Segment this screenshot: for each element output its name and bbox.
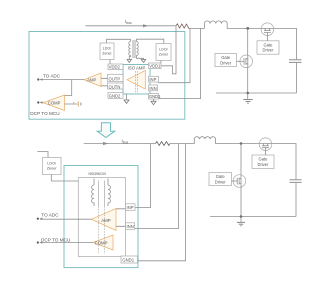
svg-text:GND2: GND2 [109,93,121,98]
svg-text:GND1: GND1 [122,258,134,263]
svg-text:AMP: AMP [87,77,96,82]
svg-text:Ibus: Ibus [122,139,129,145]
svg-text:+: + [73,101,75,105]
svg-text:Driver: Driver [220,60,232,65]
svg-text:Zener: Zener [47,167,58,171]
svg-text:COMP: COMP [95,240,108,245]
svg-text:Gate: Gate [216,174,226,179]
svg-text:TO ADC: TO ADC [41,213,59,218]
svg-text:LDO/: LDO/ [159,47,167,51]
svg-text:Driver: Driver [258,162,270,167]
svg-text:Gate: Gate [221,55,231,60]
svg-text:LDO/: LDO/ [103,47,111,51]
svg-text:Gate: Gate [264,42,274,47]
svg-text:TO ADC: TO ADC [43,73,61,78]
svg-text:Driver: Driver [263,48,275,53]
svg-text:Zener: Zener [102,52,112,56]
svg-text:VDD2: VDD2 [109,65,121,70]
svg-text:Driver: Driver [215,179,227,184]
svg-text:GND1: GND1 [149,94,161,99]
svg-text:INP: INP [149,77,156,82]
svg-text:OUTN: OUTN [109,84,121,89]
svg-text:OCP TO MCU: OCP TO MCU [41,238,71,243]
svg-text:Zener: Zener [159,52,169,56]
svg-text:OUTP: OUTP [109,76,121,81]
svg-text:VDD1: VDD1 [149,64,161,69]
svg-text:OCP TO MCU: OCP TO MCU [30,111,60,116]
svg-text:INP: INP [127,205,134,210]
svg-text:Gate: Gate [259,157,269,162]
svg-text:LDO/: LDO/ [47,161,57,165]
svg-text:INN: INN [127,224,134,229]
svg-text:COMP: COMP [48,100,61,105]
svg-text:ISO AMP: ISO AMP [128,66,146,71]
svg-text:NSI396C00: NSI396C00 [89,172,107,176]
svg-text:Ibus: Ibus [125,19,132,25]
svg-text:AMP: AMP [101,218,110,223]
svg-text:INN: INN [149,86,156,91]
